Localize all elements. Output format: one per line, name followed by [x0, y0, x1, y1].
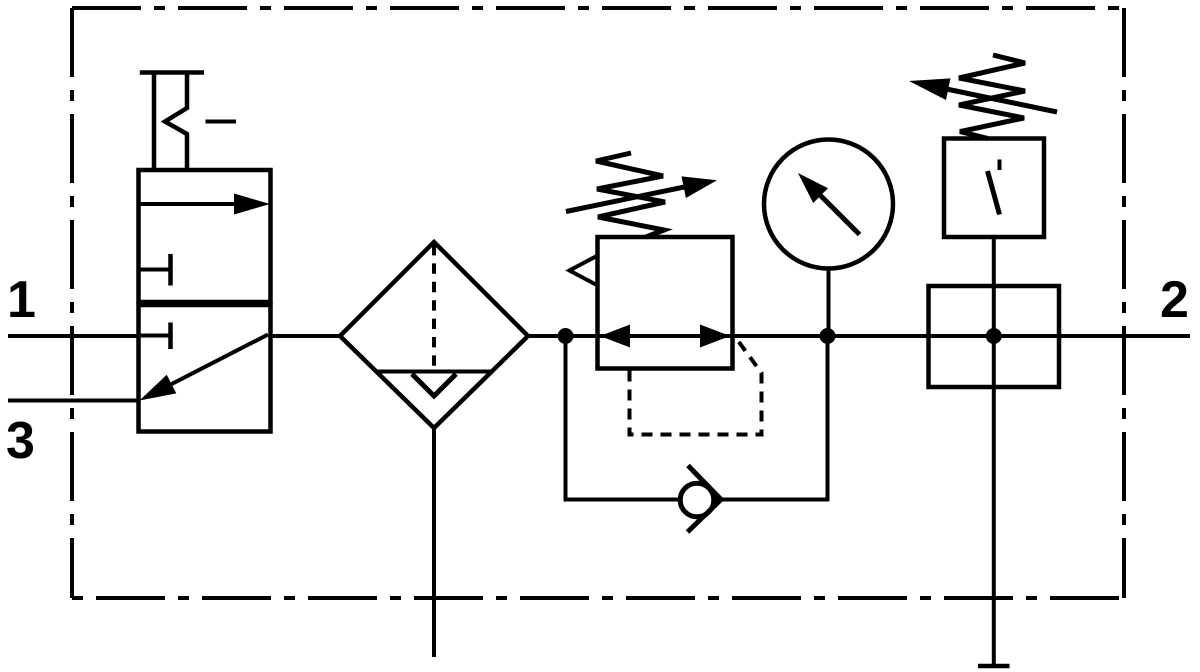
filter F1 separator line: [377, 370, 492, 374]
gauge G1 stem wire: [827, 269, 831, 337]
main wire filter to port 2: [527, 334, 1190, 338]
wire valve outlet to filter: [271, 334, 342, 338]
valve V1 flow arrow (top position): [139, 194, 271, 215]
filter F1 water drain V: [412, 374, 456, 396]
filter F1 dashed element line: [432, 245, 436, 370]
on-off valve V1 bottom position square: [139, 305, 271, 432]
gauge G1 circle: [764, 140, 893, 269]
regulator R1 pilot dashed line: [630, 338, 762, 435]
filter F1 drain line: [432, 428, 436, 657]
pressure switch PS1 sensing box: [929, 286, 1060, 387]
svg-text:2: 2: [1160, 271, 1189, 329]
node B junction dot (after regulator / gauge tap): [820, 328, 836, 344]
svg-text:3: 3: [6, 412, 35, 470]
check valve CV1 circle: [680, 483, 714, 517]
check valve CV1 seat: [688, 466, 722, 533]
valve V1 exhaust diagonal arrow (bottom position): [140, 335, 269, 401]
svg-text:1: 1: [7, 271, 36, 329]
filter F1 diamond body: [340, 242, 528, 428]
enclosure border (dash-dot frame): [72, 8, 1124, 598]
valve V1 manual actuator: [140, 71, 204, 171]
pressure switch PS1 spring adjustment arrow: [909, 78, 1057, 112]
pressure switch PS1 electrical line: [992, 237, 996, 666]
regulator R1 spring adjustment arrow: [566, 176, 717, 211]
regulator R1 adjustable spring: [596, 153, 665, 237]
regulator R1 double flow arrow: [600, 325, 730, 348]
on-off valve V1 top position square: [139, 170, 271, 302]
valve V1 blocked port (bottom position): [139, 323, 171, 350]
gauge G1 needle: [798, 173, 860, 235]
regulator R1 relief triangle: [569, 256, 597, 286]
pressure switch PS1 contact: [988, 160, 1000, 215]
valve V1 blocked port (top position): [139, 254, 171, 286]
port 3 wire: [8, 399, 138, 403]
valve V1 detent minus sign: [206, 120, 237, 124]
check valve bypass wire: [566, 336, 828, 500]
port 1 wire: [8, 334, 138, 338]
node C junction dot (inside sensing box): [986, 328, 1002, 344]
pressure switch PS1 contact box: [944, 139, 1044, 238]
regulator R1 body: [598, 237, 733, 369]
earth terminal bar: [978, 664, 1010, 669]
node A junction dot (before regulator): [558, 328, 574, 344]
pressure switch PS1 adjustable spring: [959, 55, 1025, 139]
